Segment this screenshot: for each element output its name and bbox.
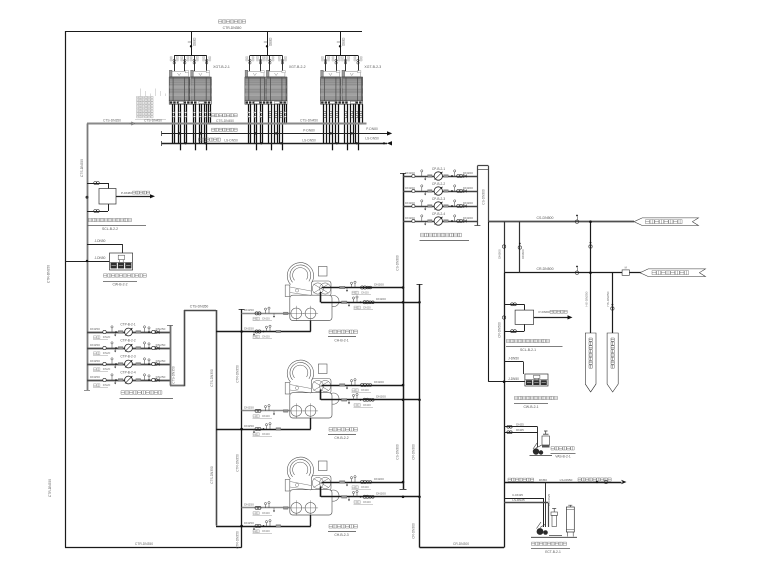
valve on inlet branch 3 of XGT-B-2-3 bbox=[341, 56, 349, 72]
svg-text:LS-DN50: LS-DN50 bbox=[560, 478, 573, 482]
wire inlet manifold of XGT-B-2-2 bbox=[250, 55, 283, 57]
pump CTP-B-2-1 discharge fittings bbox=[136, 326, 166, 334]
svg-text:DN300: DN300 bbox=[498, 249, 502, 259]
wire outlet pipe pair 3 of XGT-B-2-3 bbox=[336, 104, 339, 144]
svg-text:DN250: DN250 bbox=[244, 326, 254, 330]
svg-text:CTS-DN350: CTS-DN350 bbox=[172, 366, 176, 384]
svg-text:CR-DN500: CR-DN500 bbox=[536, 267, 553, 271]
svg-text:P-DN80: P-DN80 bbox=[121, 191, 132, 195]
fan section boxes of XGT-B-2-2 bbox=[245, 70, 287, 77]
svg-text:CS-DN300: CS-DN300 bbox=[396, 444, 400, 460]
water treatment unit SCL-B-2-1 bbox=[515, 310, 534, 324]
wire LS-DN25 line bbox=[504, 503, 548, 528]
svg-text:XGT-B-2-3: XGT-B-2-3 bbox=[364, 65, 381, 69]
wire outlet pipe pair 2 of XGT-B-2-1 bbox=[178, 104, 180, 150]
label 泄水DN20 (CTP-B-2-4) bbox=[93, 383, 111, 387]
wire condenser outlet DN250 of CH-B-2-1 bbox=[216, 321, 311, 336]
pump CTP-B-2-2 discharge fittings bbox=[136, 342, 166, 350]
label 螺杆式冷水机组 CH-B-2-1 bbox=[328, 330, 358, 343]
reducer DN350/DN450 bbox=[130, 122, 135, 125]
chiller CH-B-2-3 body bbox=[285, 457, 339, 515]
wire condenser inlet DN250 of CH-B-2-3 bbox=[242, 502, 290, 513]
node label 管道设置电伴热 LS-DN50 bbox=[198, 138, 238, 142]
wire J-DN50 dosing injection (right) bbox=[488, 380, 525, 383]
svg-text:CR-DN300: CR-DN300 bbox=[412, 444, 416, 460]
pump CP-B-2-2 suction piping bbox=[403, 185, 477, 196]
svg-text:DN250: DN250 bbox=[156, 343, 166, 347]
svg-text:DN200: DN200 bbox=[463, 216, 473, 220]
wire outlet pipe pair 6 of XGT-B-2-3 bbox=[356, 104, 359, 150]
wire riser from header to cooling tower XGT-B-2-2 bbox=[264, 31, 272, 56]
svg-text:DN50: DN50 bbox=[539, 478, 547, 482]
basin / connection strip of XGT-B-2-1 bbox=[169, 101, 211, 104]
label LS-DN50 接至卫生间给水立管 bbox=[560, 478, 612, 482]
label 定压、补水、排气装置 bbox=[531, 542, 570, 548]
label 泄水DN20 (condenser inlet CH-B-2-3) bbox=[253, 511, 273, 515]
valve on inlet branch 3 of XGT-B-2-1 bbox=[190, 56, 198, 72]
svg-text:DN250: DN250 bbox=[90, 327, 100, 331]
svg-text:CTP-B-2-4: CTP-B-2-4 bbox=[120, 371, 135, 375]
wire CR-DN500 main drop bbox=[502, 273, 505, 548]
wire outlet pipe pair 5 of XGT-B-2-3 bbox=[351, 104, 354, 143]
label 补水（一次性补水） DN50 bbox=[508, 478, 547, 482]
svg-text:HS-DN250: HS-DN250 bbox=[606, 291, 610, 306]
label 自动加药装置（冷却水系统） bbox=[103, 274, 146, 282]
label 冷却水循环泵（三用一备） bbox=[120, 391, 174, 399]
svg-text:DN20: DN20 bbox=[262, 432, 270, 436]
junction condenser outlets on CTR riser bbox=[240, 428, 243, 528]
wire outlet pipe pair 1 of XGT-B-2-2 bbox=[248, 104, 251, 143]
wire DN300 bypass drop 1 bbox=[502, 222, 505, 273]
flow meter on CR-DN500 bbox=[622, 265, 629, 275]
svg-text:DN200: DN200 bbox=[463, 171, 473, 175]
pump CP-B-2-2 discharge fittings bbox=[444, 185, 473, 193]
svg-text:SCL-B-2-2: SCL-B-2-2 bbox=[102, 227, 118, 231]
svg-text:P-DN80: P-DN80 bbox=[538, 310, 549, 314]
svg-text:DN250: DN250 bbox=[90, 343, 100, 347]
svg-text:CTR-DN350: CTR-DN350 bbox=[223, 26, 242, 30]
svg-text:CTS-DN350: CTS-DN350 bbox=[210, 369, 214, 387]
wire outlet pipe pair 7 of XGT-B-2-3 bbox=[360, 104, 363, 124]
svg-text:DN200: DN200 bbox=[376, 297, 386, 301]
wire P-DN80 to sump (left) bbox=[116, 194, 155, 198]
svg-text:CTS-DN350: CTS-DN350 bbox=[190, 304, 209, 308]
svg-text:CTR-DN350: CTR-DN350 bbox=[135, 542, 153, 546]
label 螺杆式冷水机组 CH-B-2-3 bbox=[328, 525, 358, 538]
wire CTR-DN350 condenser return riser bbox=[239, 309, 245, 548]
svg-text:DN200: DN200 bbox=[374, 477, 384, 481]
label 综合水处理器（冷却水系统） bbox=[88, 218, 147, 225]
wire J-DN50 dosing suction bbox=[87, 244, 123, 253]
wire J-DN50 dosing injection bbox=[65, 260, 110, 262]
svg-text:J-DN50: J-DN50 bbox=[508, 357, 519, 361]
wire DN300 bypass drop 2 with differential pressure valve bbox=[518, 222, 521, 273]
label 泄水DN20 (condenser inlet CH-B-2-1) bbox=[253, 317, 273, 321]
pump CTP-B-2-4 discharge fittings bbox=[136, 374, 166, 382]
pump CTP-B-2-3 discharge fittings bbox=[136, 358, 166, 366]
water treatment unit SCL-B-2-1 bypass piping bbox=[504, 303, 524, 333]
svg-text:CTS-DN450: CTS-DN450 bbox=[216, 119, 234, 123]
pump CTP-B-2-3 suction/discharge piping bbox=[87, 358, 170, 369]
label 自动加药装置（冷冻水系统） bbox=[514, 396, 557, 403]
wire evaporator outlet DN200 of CH-B-2-1 bbox=[322, 281, 403, 292]
svg-text:CTS-DN350: CTS-DN350 bbox=[103, 119, 121, 123]
svg-text:CR-DN300: CR-DN300 bbox=[412, 523, 416, 539]
svg-text:DN20: DN20 bbox=[262, 414, 270, 418]
pump CP-B-2-3 suction piping bbox=[403, 200, 477, 211]
svg-text:DN20: DN20 bbox=[262, 335, 270, 339]
wire evaporator inlet DN200 of CH-B-2-3 bbox=[321, 487, 420, 502]
svg-text:DN20: DN20 bbox=[103, 335, 111, 339]
svg-text:LS-DN50: LS-DN50 bbox=[365, 137, 379, 141]
fan section boxes of XGT-B-2-3 bbox=[321, 70, 363, 77]
pump CTP-B-2-2 bbox=[125, 344, 133, 352]
fan section boxes of XGT-B-2-1 bbox=[169, 70, 211, 77]
wire outlet pipe pair 2 of XGT-B-2-2 bbox=[254, 104, 257, 150]
cooling tower fill blocks of XGT-B-2-3 bbox=[321, 77, 363, 101]
node label 管道设置电伴热 CTR-DN350 bbox=[219, 20, 246, 30]
pump CP-B-2-4 discharge fittings bbox=[444, 215, 473, 223]
svg-text:DN200: DN200 bbox=[374, 380, 384, 384]
wire condenser outlet DN250 of CH-B-2-3 bbox=[216, 515, 311, 530]
svg-text:P-DN80: P-DN80 bbox=[303, 129, 315, 133]
svg-text:DN25: DN25 bbox=[516, 422, 524, 426]
label 螺杆式冷水机组 CH-B-2-2 bbox=[328, 428, 358, 441]
wire condenser inlet DN250 of CH-B-2-2 bbox=[242, 405, 290, 416]
label 泄水DN20 (condenser outlet CH-B-2-2) bbox=[253, 432, 273, 436]
svg-text:DN250: DN250 bbox=[244, 308, 254, 312]
svg-text:CR-DN500: CR-DN500 bbox=[497, 322, 501, 338]
svg-text:CTS-DN350: CTS-DN350 bbox=[210, 466, 214, 484]
svg-text:CH-B-2-1: CH-B-2-1 bbox=[334, 339, 348, 343]
wire J-DN50 dosing suction (right) bbox=[504, 362, 523, 375]
valve on inlet branch 2 of XGT-B-2-1 bbox=[181, 56, 189, 72]
svg-text:DN250: DN250 bbox=[244, 424, 254, 428]
svg-text:DN20: DN20 bbox=[361, 388, 369, 392]
wire J-DN50 drop from CS bar bbox=[488, 222, 490, 382]
svg-text:DN250: DN250 bbox=[90, 359, 100, 363]
label 泄水DN20 (CTP-B-2-1) bbox=[93, 335, 111, 339]
wire outlet pipe pair 7 of XGT-B-2-2 bbox=[284, 104, 286, 124]
vacuum degasser VAS-B-2-1 bbox=[530, 431, 553, 456]
wire condenser outlet DN250 of CH-B-2-2 bbox=[216, 418, 311, 433]
valve on inlet branch 4 of XGT-B-2-1 bbox=[203, 56, 211, 72]
svg-text:J-DN50: J-DN50 bbox=[508, 377, 519, 381]
junction chiller evap outlets on CS riser bbox=[402, 286, 405, 483]
wire P-DN80 drain header bbox=[162, 131, 393, 136]
wire evaporator outlet DN200 of CH-B-2-2 bbox=[322, 379, 403, 390]
wire outlet pipe pair 3 of XGT-B-2-1 bbox=[184, 104, 186, 144]
valve on inlet branch 1 of XGT-B-2-1 bbox=[170, 56, 178, 72]
wire inlet manifold of XGT-B-2-1 bbox=[174, 55, 207, 57]
wire outlet pipe pair 3 of XGT-B-2-2 bbox=[260, 104, 263, 144]
wire outlet pipe pair 5 of XGT-B-2-2 bbox=[275, 104, 278, 143]
wire evaporator inlet DN200 of CH-B-2-2 bbox=[321, 390, 420, 405]
label P-DN80接入集水井 bbox=[121, 191, 150, 195]
svg-text:ECT-B-2-1: ECT-B-2-1 bbox=[545, 550, 561, 554]
valve on inlet branch 2 of XGT-B-2-3 bbox=[332, 56, 340, 72]
svg-text:DN20: DN20 bbox=[103, 367, 111, 371]
svg-text:CTR-DN350: CTR-DN350 bbox=[235, 454, 239, 472]
svg-text:DN200: DN200 bbox=[376, 492, 386, 496]
svg-text:CTS-DN350: CTS-DN350 bbox=[80, 159, 84, 177]
valve on inlet branch 2 of XGT-B-2-2 bbox=[256, 56, 264, 72]
pump CP-B-2-3 discharge fittings bbox=[444, 200, 473, 208]
wire outlet pipe pair 6 of XGT-B-2-1 bbox=[204, 104, 206, 150]
valve on inlet branch 3 of XGT-B-2-2 bbox=[266, 56, 274, 72]
wire outlet pipe pair 4 of XGT-B-2-2 bbox=[269, 104, 272, 150]
valve on inlet branch 1 of XGT-B-2-2 bbox=[246, 56, 254, 72]
water treatment unit SCL-B-2-2 bbox=[99, 189, 116, 205]
wire C-DN25 line bbox=[504, 498, 543, 527]
flag 接至宿舍楼换热站 (riser 1) bbox=[585, 333, 596, 392]
svg-text:CW-B-2-2: CW-B-2-2 bbox=[112, 283, 127, 287]
label 来水DN20 (evap outlet CH-B-2-2) bbox=[352, 388, 372, 392]
svg-text:DN20: DN20 bbox=[103, 383, 111, 387]
svg-text:SCL-B-2-1: SCL-B-2-1 bbox=[520, 348, 536, 352]
svg-text:LS-DN50: LS-DN50 bbox=[224, 138, 238, 142]
wire CS-DN300 pump discharge header bar bbox=[474, 166, 488, 226]
wire CR-DN300 chilled return riser bbox=[417, 284, 505, 548]
water treatment unit SCL-B-2-2 bypass piping bbox=[87, 182, 109, 213]
pump CP-B-2-3 bbox=[434, 202, 442, 210]
flag 接至宿舍楼换热站 (riser 2) bbox=[607, 333, 618, 392]
svg-text:DN20: DN20 bbox=[262, 529, 270, 533]
wire evaporator outlet DN200 of CH-B-2-3 bbox=[322, 476, 403, 487]
wire inlet manifold of XGT-B-2-3 bbox=[326, 55, 359, 57]
wire CTS-DN350 pump suction riser bbox=[84, 124, 90, 391]
pump CP-B-2-1 suction piping bbox=[403, 170, 477, 181]
svg-text:CTR-DN350: CTR-DN350 bbox=[48, 479, 52, 497]
svg-text:J-DN50: J-DN50 bbox=[95, 256, 106, 260]
basin / connection strip of XGT-B-2-3 bbox=[321, 101, 363, 104]
svg-text:DN250: DN250 bbox=[244, 521, 254, 525]
flag 接至办公区空调系统 (supply) bbox=[634, 218, 699, 226]
svg-text:DN250: DN250 bbox=[156, 359, 166, 363]
svg-text:DN300: DN300 bbox=[521, 249, 525, 259]
wire HS-DN250 riser 2 bbox=[611, 273, 614, 341]
wire outlet pipe pair 1 of XGT-B-2-3 bbox=[324, 104, 327, 143]
svg-text:CS-DN300: CS-DN300 bbox=[396, 255, 400, 271]
pump CTP-B-2-2 suction/discharge piping bbox=[87, 342, 170, 353]
svg-text:DN20: DN20 bbox=[363, 500, 371, 504]
label 来水DN20 (evap outlet CH-B-2-1) bbox=[352, 291, 372, 295]
svg-text:DN250: DN250 bbox=[90, 375, 100, 379]
basin / connection strip of XGT-B-2-2 bbox=[245, 101, 287, 104]
wire makeup water line DN50 bbox=[504, 480, 626, 485]
wire condenser inlet DN250 of CH-B-2-1 bbox=[242, 307, 290, 318]
node label 管道设置电伴热 CTS-DN450 bbox=[212, 114, 238, 123]
pump CP-B-2-1 bbox=[434, 172, 442, 180]
svg-text:CW-B-2-1: CW-B-2-1 bbox=[523, 405, 538, 409]
junction chiller evap inlets on CR riser bbox=[418, 301, 421, 498]
pump CTP-B-2-3 bbox=[125, 360, 133, 368]
wire outlet pipe pair 4 of XGT-B-2-3 bbox=[345, 104, 348, 150]
wire outlet pipe pair 1 of XGT-B-2-1 bbox=[172, 104, 174, 143]
svg-text:C-DN25: C-DN25 bbox=[512, 493, 523, 497]
label 来水DN20 (evap outlet CH-B-2-3) bbox=[352, 485, 372, 489]
label DN25 x2 bbox=[516, 422, 524, 431]
pump CTP-B-2-4 bbox=[125, 376, 133, 384]
svg-text:LS-DN50: LS-DN50 bbox=[302, 138, 316, 142]
cooling tower fill blocks of XGT-B-2-1 bbox=[169, 77, 211, 101]
chiller CH-B-2-2 body bbox=[285, 360, 339, 418]
svg-text:DN250: DN250 bbox=[244, 406, 254, 410]
svg-text:DN250: DN250 bbox=[244, 503, 254, 507]
pump CTP-B-2-4 suction/discharge piping bbox=[87, 374, 170, 385]
wire riser from header to cooling tower XGT-B-2-1 bbox=[188, 31, 196, 56]
label 来水DN20 (evap inlet CH-B-2-3) bbox=[354, 500, 374, 505]
pump CP-B-2-1 discharge fittings bbox=[444, 170, 473, 178]
wire outlet pipe pair 5 of XGT-B-2-1 bbox=[199, 104, 201, 143]
valve on inlet branch 4 of XGT-B-2-2 bbox=[278, 56, 286, 72]
chiller CH-B-2-1 body bbox=[285, 263, 339, 321]
label 来水DN20 (evap inlet CH-B-2-2) bbox=[354, 403, 374, 408]
annotation callout cluster (tower piping legend) bbox=[135, 89, 166, 120]
wire outlet pipe pair 6 of XGT-B-2-2 bbox=[280, 104, 283, 150]
svg-text:CS-DN300: CS-DN300 bbox=[482, 189, 486, 205]
wire evaporator inlet DN200 of CH-B-2-1 bbox=[321, 292, 420, 307]
svg-text:DN25: DN25 bbox=[516, 428, 524, 432]
svg-text:DN250: DN250 bbox=[156, 327, 166, 331]
svg-text:CH-B-2-2: CH-B-2-2 bbox=[334, 436, 348, 440]
pump CTP-B-2-1 suction/discharge piping bbox=[87, 326, 170, 337]
wire LS-DN25 drop to expansion unit bbox=[545, 482, 547, 527]
wire outlet pipe pair 4 of XGT-B-2-1 bbox=[193, 104, 195, 150]
dosing unit CW-B-2-2 bbox=[110, 253, 133, 270]
svg-text:DN20: DN20 bbox=[262, 317, 270, 321]
svg-text:CTS-DN450: CTS-DN450 bbox=[144, 119, 162, 123]
svg-text:CP-B-2-4: CP-B-2-4 bbox=[432, 212, 446, 216]
label 泄水DN20 (CTP-B-2-2) bbox=[93, 351, 111, 355]
svg-text:DN20: DN20 bbox=[361, 485, 369, 489]
wire CTR-DN350 bottom return run bbox=[65, 547, 242, 549]
label P-DN80接入集水井 (right) bbox=[538, 310, 567, 314]
svg-text:CTP-B-2-1: CTP-B-2-1 bbox=[120, 323, 135, 327]
label 冷冻水循环泵（三用一备） bbox=[420, 233, 470, 240]
pump CTP-B-2-1 bbox=[125, 328, 133, 336]
svg-text:CP-B-2-1: CP-B-2-1 bbox=[432, 167, 446, 171]
dosing unit CW-B-2-1 bbox=[525, 374, 548, 386]
svg-text:CTP-B-2-2: CTP-B-2-2 bbox=[120, 339, 135, 343]
node label 管道设置电伴热 (P line) bbox=[212, 128, 238, 131]
label 泄水DN20 (condenser outlet CH-B-2-3) bbox=[253, 529, 273, 533]
svg-text:HS-DN250: HS-DN250 bbox=[584, 291, 588, 306]
label 泄水DN20 (condenser inlet CH-B-2-2) bbox=[253, 414, 273, 418]
wire HS-DN250 riser 1 bbox=[589, 220, 592, 333]
wire CTS-DN450 tower outlet header bbox=[87, 123, 367, 125]
svg-text:DN20: DN20 bbox=[363, 403, 371, 407]
wire CTS-DN350 pump discharge header bbox=[167, 310, 217, 526]
wire DN25 to vacuum degasser bbox=[504, 425, 537, 447]
wire CTR-DN350 left riser bbox=[65, 31, 67, 548]
wire riser from header to cooling tower XGT-B-2-3 bbox=[337, 31, 345, 56]
pump CP-B-2-4 suction piping bbox=[403, 215, 477, 226]
svg-text:DN200: DN200 bbox=[463, 186, 473, 190]
svg-text:DN250: DN250 bbox=[156, 375, 166, 379]
svg-text:M: M bbox=[625, 265, 627, 269]
wire outlet pipe pair 7 of XGT-B-2-1 bbox=[209, 104, 211, 124]
label 泄水DN20 (condenser outlet CH-B-2-1) bbox=[253, 335, 273, 339]
svg-text:DN20: DN20 bbox=[262, 511, 270, 515]
svg-text:DN20: DN20 bbox=[103, 351, 111, 355]
label 泄水DN20 (CTP-B-2-3) bbox=[93, 367, 111, 371]
svg-text:DN200: DN200 bbox=[463, 201, 473, 205]
wire CS-DN300 chilled supply riser bbox=[400, 173, 407, 490]
svg-text:CTR-DN350: CTR-DN350 bbox=[235, 531, 239, 549]
svg-text:XGT-B-2-2: XGT-B-2-2 bbox=[289, 65, 306, 69]
flag 接至办公区空调系统 (return) bbox=[640, 269, 706, 277]
svg-text:DN20: DN20 bbox=[363, 306, 371, 310]
svg-text:CTR-DN350: CTR-DN350 bbox=[235, 365, 239, 383]
svg-text:CH-B-2-3: CH-B-2-3 bbox=[334, 533, 348, 537]
pump CP-B-2-4 bbox=[434, 217, 442, 225]
wire CR-DN500 return main bbox=[504, 272, 643, 274]
svg-text:CR-DN300: CR-DN300 bbox=[453, 542, 469, 546]
label 来水DN20 (evap inlet CH-B-2-1) bbox=[354, 306, 374, 310]
svg-text:CP-B-2-2: CP-B-2-2 bbox=[432, 182, 446, 186]
wire LS-DN50 makeup header bbox=[162, 141, 393, 146]
wire P-DN80 to sump (right) bbox=[534, 315, 573, 319]
valve with sensor on CS-DN500 bbox=[575, 215, 579, 224]
wire CTR-DN350 cooling tower supply header bbox=[65, 31, 362, 33]
svg-text:CTP-B-2-3: CTP-B-2-3 bbox=[120, 355, 135, 359]
svg-text:VAS-B-2-1: VAS-B-2-1 bbox=[555, 455, 571, 459]
valve on inlet branch 1 of XGT-B-2-3 bbox=[321, 56, 329, 72]
label 综合水处理器（冷冻水系统） bbox=[506, 339, 563, 346]
svg-text:DN200: DN200 bbox=[376, 395, 386, 399]
valve with sensor on CR-DN500 bbox=[575, 266, 579, 275]
svg-text:LS-DN25: LS-DN25 bbox=[512, 498, 525, 502]
svg-text:XGT-B-2-1: XGT-B-2-1 bbox=[213, 65, 230, 69]
cooling tower fill blocks of XGT-B-2-2 bbox=[245, 77, 287, 101]
expansion/makeup/degassing unit ECT-B-2-1 bbox=[531, 505, 577, 537]
svg-text:CTS-DN450: CTS-DN450 bbox=[300, 119, 318, 123]
svg-text:CTR-DN350: CTR-DN350 bbox=[47, 265, 51, 283]
svg-text:P-DN80: P-DN80 bbox=[366, 127, 378, 131]
svg-text:DN200: DN200 bbox=[374, 282, 384, 286]
wire outlet pipe pair 2 of XGT-B-2-3 bbox=[330, 104, 333, 150]
svg-text:DN20: DN20 bbox=[361, 291, 369, 295]
valve on inlet branch 4 of XGT-B-2-3 bbox=[354, 56, 362, 72]
pump CP-B-2-2 bbox=[434, 187, 442, 195]
svg-text:J-DN50: J-DN50 bbox=[95, 239, 106, 243]
svg-text:CS-DN500: CS-DN500 bbox=[537, 216, 554, 220]
wire CS-DN500 supply main bbox=[488, 221, 634, 223]
svg-text:CP-B-2-3: CP-B-2-3 bbox=[432, 197, 446, 201]
label 真空脱气装置 bbox=[551, 447, 576, 454]
